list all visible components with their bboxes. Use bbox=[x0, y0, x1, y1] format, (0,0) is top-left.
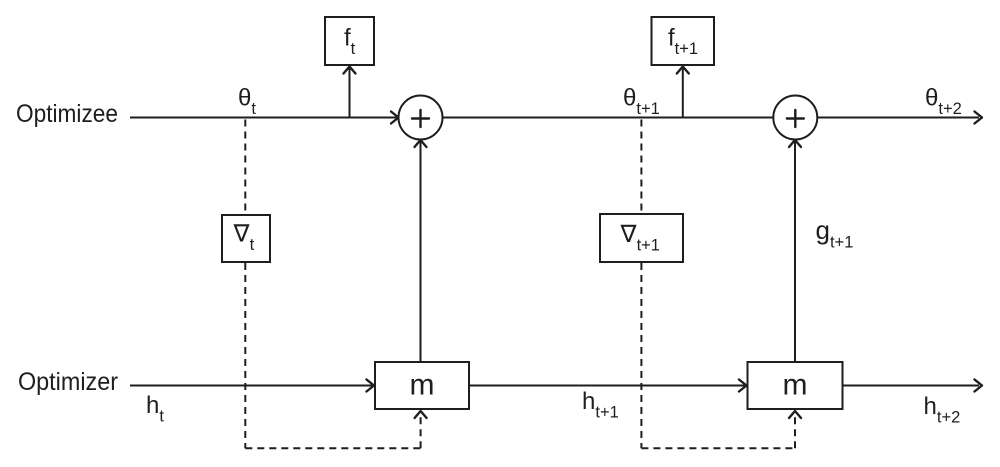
plus circle 1 bbox=[399, 96, 443, 140]
box f_t bbox=[325, 17, 374, 65]
wire dashed theta_t to grad_t box bbox=[244, 120, 246, 215]
arrowhead into plus circle 2 bottom bbox=[789, 140, 801, 147]
wire dashed up into m box 2 bbox=[794, 413, 796, 448]
svg-text:Optimizee: Optimizee bbox=[16, 100, 118, 128]
arrowhead into m box 1 left bbox=[367, 380, 375, 392]
wire dashed grad_t+1 down bbox=[640, 263, 642, 448]
box grad_t bbox=[222, 215, 270, 262]
svg-text:m: m bbox=[783, 369, 808, 402]
arrowhead optimizee line end bbox=[975, 112, 983, 124]
wire m box 1 up to plus circle 1 bbox=[420, 141, 422, 362]
wire dashed theta_t+1 to grad_t+1 box bbox=[640, 120, 642, 214]
wire arrow to f_t+1 bbox=[682, 68, 684, 117]
svg-text:m: m bbox=[410, 369, 435, 402]
wire dashed bottom horizontal right bbox=[641, 447, 795, 449]
arrowhead optimizer line end bbox=[975, 380, 983, 392]
wire arrow to f_t bbox=[349, 68, 351, 117]
wire dashed grad_t down bbox=[244, 263, 246, 448]
wire optimizee line bbox=[130, 117, 979, 119]
arrowhead into m box 2 left bbox=[739, 380, 747, 392]
box f_t+1 bbox=[652, 17, 715, 65]
wire dashed bottom horizontal left bbox=[245, 447, 420, 449]
wire optimizer line segment 3 bbox=[843, 385, 980, 387]
wire m box 2 up to plus circle 2 bbox=[794, 141, 796, 362]
plus sign 2 bbox=[787, 110, 804, 127]
arrowhead into plus circle 1 bbox=[391, 112, 399, 124]
plus sign 1 bbox=[412, 110, 429, 127]
box m 2 bbox=[748, 362, 843, 409]
arrowhead dashed into m box 2 bbox=[789, 411, 801, 418]
wire optimizer line segment 2 bbox=[469, 385, 745, 387]
wire optimizer line segment 1 bbox=[130, 385, 372, 387]
svg-text:Optimizer: Optimizer bbox=[18, 368, 118, 396]
box grad_t+1 bbox=[600, 214, 683, 262]
arrowhead into plus circle 1 bottom bbox=[415, 140, 427, 147]
plus circle 2 bbox=[773, 96, 817, 140]
arrowhead into f_t+1 bbox=[677, 67, 689, 74]
wire dashed up into m box 1 bbox=[420, 413, 422, 448]
arrowhead dashed into m box 1 bbox=[415, 411, 427, 418]
arrowhead into f_t bbox=[344, 67, 356, 74]
box m 1 bbox=[375, 362, 469, 409]
